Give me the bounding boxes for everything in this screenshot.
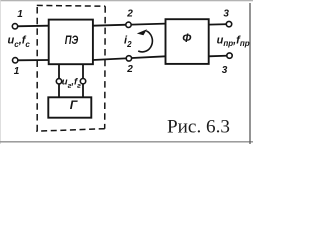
svg-text:2: 2 <box>126 64 133 75</box>
wire: input 1 top to PE <box>15 25 49 28</box>
label F <box>182 32 192 45</box>
net label ug,fg (heterodyne voltage) <box>62 77 81 90</box>
svg-text:Ф: Ф <box>182 32 192 45</box>
wire: input 1 bottom to PE <box>15 59 49 61</box>
svg-text:3: 3 <box>223 9 229 20</box>
pin label 3 top <box>223 9 229 20</box>
terminal g left <box>56 79 61 84</box>
svg-text:1: 1 <box>14 66 20 77</box>
pin label 2 top <box>126 8 133 19</box>
label PE <box>65 33 79 47</box>
terminal 1 bottom <box>13 58 18 63</box>
wire: PE to G left vertical <box>58 64 60 98</box>
dashed enclosure box <box>36 5 105 131</box>
caption Ris. 6.3 <box>167 116 230 137</box>
block PE (mixer element) <box>49 20 93 65</box>
wire: PE to F bottom (through node 2) <box>93 56 166 60</box>
svg-text:ПЭ: ПЭ <box>65 33 79 47</box>
terminal g right <box>80 79 85 84</box>
svg-text:Г: Г <box>70 98 78 112</box>
frame top border <box>0 0 253 2</box>
pin label 3 bottom <box>222 65 228 76</box>
wire: F to output 3 bottom <box>209 55 230 58</box>
terminal 1 top <box>12 24 17 29</box>
current arrow head <box>137 29 147 35</box>
frame left border <box>0 0 1 144</box>
terminal 2 bottom <box>126 56 131 61</box>
pin label 1 bottom <box>14 66 20 77</box>
net label uc,fc (signal input) <box>8 35 31 49</box>
frame right border <box>249 3 251 144</box>
pin label 2 bottom <box>126 64 133 75</box>
svg-text:3: 3 <box>222 65 228 76</box>
wire: F to output 3 top <box>209 23 230 26</box>
wire: PE to F top (through node 2) <box>93 24 166 26</box>
terminal 3 bottom <box>227 53 232 58</box>
svg-text:2: 2 <box>126 8 133 19</box>
block F (filter) <box>166 19 209 64</box>
net label i2 (loop current) <box>124 34 132 48</box>
svg-text:1: 1 <box>17 9 23 20</box>
net label upr,fpr (IF output) <box>217 34 250 48</box>
pin label 1 top <box>17 9 23 20</box>
frame bottom border <box>0 141 253 143</box>
terminal 3 top <box>226 21 231 26</box>
label G <box>70 98 78 112</box>
wire: PE to G right vertical <box>82 64 84 98</box>
block G (heterodyne generator) <box>48 97 91 117</box>
terminal 2 top <box>126 22 131 27</box>
current arrow i2 circulation arc <box>138 31 152 52</box>
svg-text:Рис. 6.3: Рис. 6.3 <box>167 116 230 137</box>
